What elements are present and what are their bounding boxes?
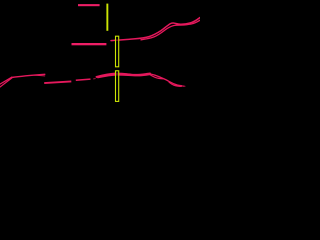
left long road line	[12, 74, 45, 77]
left diagonal strand 2	[0, 78, 12, 87]
pink bar middle-left	[72, 43, 107, 45]
faint tail end	[183, 85, 186, 87]
yellow runway rectangle B (lower)	[116, 71, 119, 102]
pink bar top	[78, 4, 100, 6]
end blob	[176, 84, 182, 87]
eye loop upper strand	[150, 74, 185, 86]
lower road band strand 2	[98, 74, 150, 77]
end loop lower strand	[169, 82, 181, 86]
yellow marker line (top)	[106, 4, 108, 31]
upper motorway curve	[111, 18, 200, 41]
left diagonal strand 1	[0, 77, 12, 84]
road dash A	[44, 81, 71, 83]
yellow runway rectangle A (upper)	[116, 36, 119, 67]
road dash C (faint)	[93, 78, 95, 80]
lower road band strand 1	[97, 74, 151, 77]
eye loop lower strand	[151, 75, 164, 79]
short fork under long line end	[34, 74, 45, 77]
lower motorway curve	[141, 20, 200, 40]
road dash B	[76, 79, 91, 80]
